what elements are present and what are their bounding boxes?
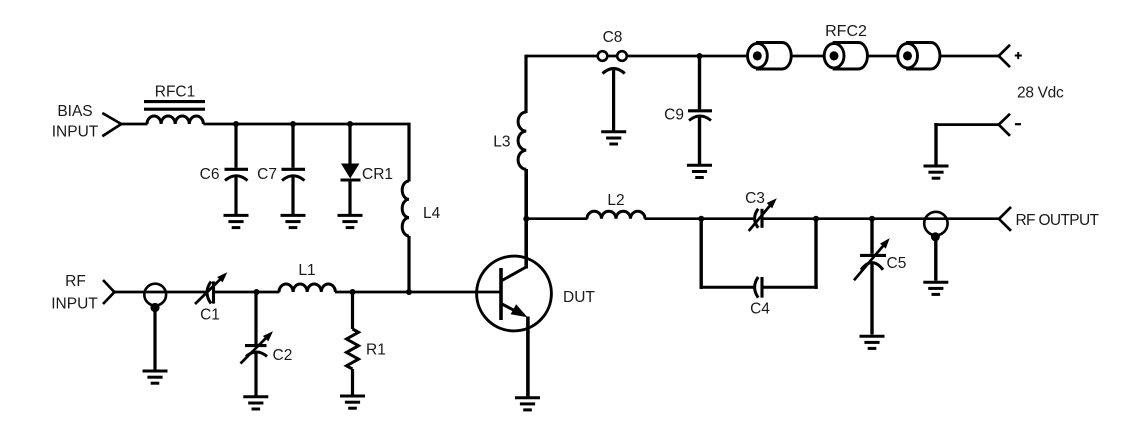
- C5 arrow: [854, 244, 885, 280]
- DUT base bar: [499, 268, 503, 320]
- svg-text:L1: L1: [298, 262, 315, 279]
- RFC2 bead 2: [824, 43, 867, 70]
- ground DUT emitter: [515, 398, 540, 410]
- wire rf output connector to ground: [934, 238, 937, 281]
- svg-text:C5: C5: [887, 255, 907, 272]
- ground C2: [243, 397, 268, 409]
- capacitor C7: [291, 124, 294, 168]
- ground minus terminal: [924, 166, 949, 178]
- capacitor C8 (feedthrough): [598, 51, 608, 61]
- node C3 right: [813, 216, 819, 222]
- svg-text:C6: C6: [200, 166, 220, 183]
- top supply line: [526, 55, 999, 58]
- svg-text:R1: R1: [366, 342, 386, 359]
- minus terminal chevron: [999, 114, 1010, 136]
- wire L1 to DUT base: [335, 291, 500, 294]
- plus terminal chevron: [999, 45, 1010, 67]
- svg-text:CR1: CR1: [362, 166, 393, 183]
- RFC2 bead 3: [898, 43, 940, 70]
- node C2: [254, 289, 260, 295]
- svg-text:RFC2: RFC2: [825, 23, 867, 40]
- svg-text:RFC1: RFC1: [155, 84, 195, 101]
- wire minus terminal down to ground: [934, 123, 937, 165]
- svg-text:RF OUTPUT: RF OUTPUT: [1016, 212, 1100, 229]
- inductor L4: [402, 181, 409, 236]
- svg-text:28 Vdc: 28 Vdc: [1017, 85, 1064, 102]
- capacitor C9: [698, 56, 701, 109]
- wire rf input connector to ground: [153, 308, 156, 370]
- ground rf input connector: [143, 371, 168, 383]
- ground C7: [281, 215, 306, 227]
- svg-text:INPUT: INPUT: [51, 296, 98, 313]
- RFC2 bead 1: [748, 43, 792, 70]
- node bias/C7: [290, 121, 296, 127]
- inductor L3: [518, 112, 526, 169]
- rf input connector chevron: [103, 280, 114, 304]
- wire L3 to collector node: [524, 169, 528, 219]
- node bias/C6: [233, 121, 239, 127]
- svg-text:INPUT: INPUT: [52, 124, 99, 141]
- capacitor C6: [234, 124, 237, 168]
- node bias/CR1: [347, 121, 353, 127]
- capacitor C4: [755, 277, 759, 298]
- minus label: [1015, 123, 1021, 125]
- svg-text:DUT: DUT: [563, 289, 595, 306]
- output line DUT to L2: [526, 217, 588, 220]
- wire bias bus RFC1 to corner: [203, 123, 410, 126]
- svg-text:C7: C7: [257, 166, 277, 183]
- C4 branch left wire: [700, 219, 703, 289]
- node C5: [869, 216, 875, 222]
- wire DUT emitter to ground: [526, 317, 530, 398]
- svg-text:L2: L2: [607, 192, 624, 209]
- resistor R1: [351, 292, 354, 329]
- capacitor C3: [755, 209, 759, 228]
- node C9: [697, 53, 703, 59]
- ground rf output connector: [923, 282, 948, 294]
- rf output chevron: [999, 207, 1011, 231]
- node C3 left: [698, 216, 704, 222]
- svg-text:BIAS: BIAS: [57, 103, 92, 120]
- C4 branch right riser: [814, 219, 817, 289]
- ground CR1: [338, 215, 363, 227]
- ground R1: [340, 396, 365, 408]
- wire top line corner down to L3: [524, 55, 527, 113]
- capacitor C2: [254, 292, 257, 344]
- rf input feedthrough connector: [144, 284, 166, 306]
- rf output feedthrough connector: [924, 212, 947, 235]
- inductor L1: [279, 284, 335, 292]
- diode CR1: [348, 124, 351, 164]
- node DUT collector: [523, 216, 529, 222]
- inductor RFC1: [147, 116, 203, 124]
- plus label: [1015, 52, 1022, 59]
- node L4/RF line: [406, 289, 412, 295]
- output line C3 to chevron: [762, 217, 999, 220]
- capacitor C1: [207, 282, 211, 304]
- ground C8: [601, 132, 626, 144]
- wire bias input to RFC1: [121, 123, 148, 126]
- wire L4 to RF line: [407, 236, 410, 292]
- DUT emitter arrowhead: [511, 304, 528, 317]
- svg-text:C3: C3: [745, 190, 765, 207]
- svg-text:L4: L4: [423, 205, 441, 222]
- svg-text:RF: RF: [65, 273, 86, 290]
- wire bias corner down to L4: [407, 123, 410, 182]
- svg-text:C2: C2: [273, 347, 293, 364]
- wire C1 to L1: [215, 291, 280, 294]
- svg-text:C8: C8: [603, 29, 623, 46]
- bias input connector chevron: [102, 113, 121, 136]
- DUT emitter lead: [501, 304, 521, 315]
- transistor DUT (circle): [477, 256, 552, 331]
- C2 arrow: [241, 337, 268, 364]
- wire rf input to C1: [114, 291, 206, 294]
- ground C9: [687, 165, 712, 177]
- C4 branch right wire: [762, 286, 818, 289]
- ground C5: [860, 336, 885, 348]
- svg-text:L3: L3: [493, 134, 510, 151]
- wire minus terminal horizontal: [934, 123, 999, 126]
- svg-text:C9: C9: [664, 107, 684, 124]
- ground C6: [224, 215, 249, 227]
- C1 arrow: [195, 278, 222, 304]
- inductor L2: [587, 211, 645, 218]
- output line L2 to C3: [645, 217, 755, 220]
- wire DUT collector to output node: [524, 219, 528, 269]
- C3 arrow: [749, 204, 772, 231]
- node R1: [350, 289, 356, 295]
- svg-text:C4: C4: [750, 301, 770, 318]
- DUT collector lead: [501, 267, 527, 282]
- svg-text:C1: C1: [200, 307, 220, 324]
- capacitor C5: [870, 219, 873, 254]
